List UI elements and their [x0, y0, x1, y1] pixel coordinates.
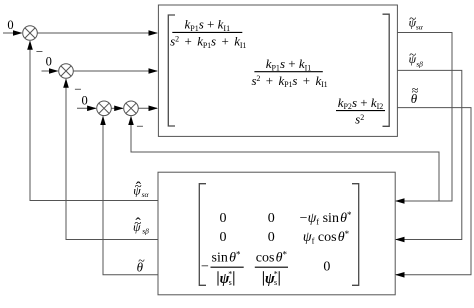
summing junction S3 — [97, 101, 112, 116]
wire S2 to top box — [73, 70, 157, 72]
node matrix2 row3 col1 fraction bar — [211, 266, 244, 268]
svg-text:sα: sα — [416, 23, 424, 32]
wire bottom box output 1 feedback to S1 — [30, 41, 158, 200]
wire S1 to top box — [37, 32, 157, 34]
node matrix2 row3 col2 denominator — [263, 269, 279, 287]
svg-text:−: − — [201, 259, 209, 274]
node label psi-hat-tilde s-alpha — [133, 178, 149, 199]
svg-text:*: * — [228, 269, 232, 278]
node label theta-tilde — [137, 253, 146, 274]
svg-text:s2 + kP1s + kI1: s2 + kP1s + kI1 — [170, 34, 246, 50]
node matrix1 left bracket — [168, 15, 175, 126]
node output label psi-tilde s-beta — [409, 46, 424, 68]
node matrix2 right bracket — [352, 184, 359, 286]
wire input arrow into S3 — [77, 107, 96, 109]
wire top box output 3 to bottom box input 3 — [396, 108, 471, 275]
wire input arrow into S2 — [42, 70, 58, 72]
wire top box output 2 to bottom box input 2 — [396, 70, 462, 239]
wire input arrow into S1 — [3, 32, 22, 34]
block PI controller matrix box — [158, 5, 397, 136]
node matrix2 row3 col2 fraction bar — [255, 266, 288, 268]
svg-text:0: 0 — [268, 211, 275, 226]
svg-text:sβ: sβ — [142, 226, 149, 235]
wire S3 to S4 — [111, 107, 122, 109]
node output label theta double tilde — [411, 82, 419, 106]
block matrix 1 contents — [168, 14, 389, 127]
svg-text:−: − — [36, 44, 43, 59]
svg-text:−: − — [136, 119, 143, 134]
svg-text:kP1s + kI1: kP1s + kI1 — [266, 56, 312, 72]
node transfer function cell 2 fraction bar — [254, 71, 322, 73]
block feedback gain matrix box — [158, 172, 395, 295]
summing junction S2 — [59, 64, 74, 79]
svg-text:~: ~ — [412, 82, 419, 96]
svg-text:~: ~ — [138, 253, 145, 267]
svg-text:0: 0 — [323, 259, 330, 274]
svg-text:s2: s2 — [355, 112, 364, 127]
svg-text:−ψf sin θ*: −ψf sin θ* — [300, 210, 352, 226]
node matrix2 row3 col1 denominator — [218, 269, 234, 287]
node matrix2 left bracket — [199, 184, 206, 286]
wire bottom box output 3 feedback to S3 — [103, 117, 158, 275]
wire branch from input-1 net feedback to S4 — [131, 117, 439, 201]
svg-text:s: s — [274, 278, 277, 287]
svg-text:s2 + kP1s + kI1: s2 + kP1s + kI1 — [251, 73, 327, 89]
wire top box output 1 to bottom box input 1 — [396, 33, 452, 202]
node matrix1 right bracket — [383, 14, 390, 126]
svg-text:sin θ*: sin θ* — [212, 249, 241, 265]
svg-text:kP2s + kI2: kP2s + kI2 — [338, 95, 384, 111]
svg-text:0: 0 — [220, 230, 227, 245]
svg-text:0: 0 — [81, 93, 87, 107]
svg-text:sβ: sβ — [416, 59, 423, 68]
wire bottom box output 2 feedback to S2 — [66, 79, 158, 239]
wire S4 to top box — [138, 107, 157, 109]
node transfer function cell 1 fraction bar — [172, 31, 242, 33]
svg-text:0: 0 — [7, 18, 13, 32]
svg-text:ψf cos θ*: ψf cos θ* — [303, 229, 350, 245]
summing junction S1 — [23, 26, 38, 41]
summing junction S4 — [124, 101, 139, 116]
svg-text:cos θ*: cos θ* — [256, 249, 288, 265]
block matrix 2 contents — [199, 184, 358, 288]
svg-text:0: 0 — [268, 230, 275, 245]
node output label psi-tilde s-alpha — [409, 11, 424, 32]
svg-text:0: 0 — [220, 211, 227, 226]
svg-text:0: 0 — [46, 54, 52, 68]
svg-text:s: s — [229, 278, 232, 287]
svg-text:*: * — [274, 269, 278, 278]
svg-text:sα: sα — [142, 190, 150, 199]
node label psi-hat-tilde s-beta — [133, 215, 149, 235]
node transfer function cell 3 fraction bar — [336, 110, 385, 112]
svg-text:kP1s + kI1: kP1s + kI1 — [185, 17, 231, 33]
svg-text:ˆ: ˆ — [135, 215, 141, 232]
svg-text:~: ~ — [409, 46, 416, 61]
